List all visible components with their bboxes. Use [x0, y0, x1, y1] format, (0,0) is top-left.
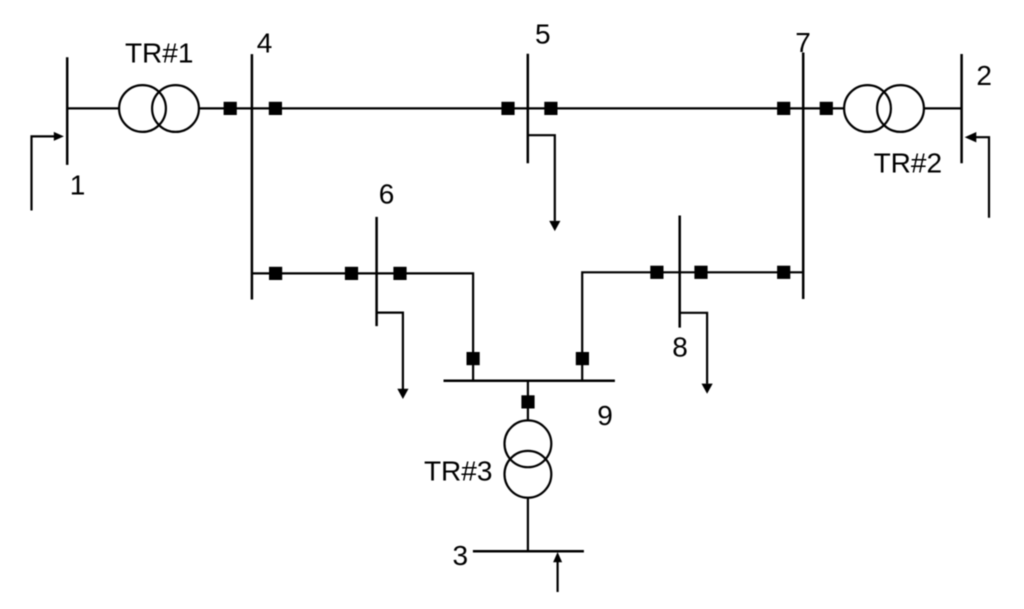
svg-text:4: 4 [257, 27, 273, 58]
bus 3 [473, 550, 584, 553]
svg-text:1: 1 [70, 170, 86, 201]
breaker square line 7-8 drop [576, 352, 589, 365]
wire line 5-7 [528, 107, 803, 109]
svg-text:TR#3: TR#3 [424, 455, 492, 486]
bus 9 [444, 379, 615, 382]
wire bus1 to TR#1 [66, 107, 120, 109]
svg-text:2: 2 [976, 60, 992, 91]
svg-text:8: 8 [672, 332, 688, 363]
generator G1 feed wire [32, 136, 55, 210]
svg-text:TR#2: TR#2 [874, 147, 942, 178]
generator G3 feed wire [556, 562, 558, 592]
breaker square TR#1-bus4 [224, 102, 237, 115]
arrowhead generator G3 [553, 552, 562, 562]
load wire at bus 6 [377, 313, 403, 389]
transformer TR#2 [844, 85, 891, 132]
breaker square bus4 line 4-5 [269, 102, 282, 115]
breaker square line 4-5 at bus5 [501, 102, 514, 115]
arrowhead load 8 [702, 384, 713, 394]
load wire at bus 5 [528, 135, 555, 221]
svg-text:9: 9 [597, 400, 613, 431]
wire TR#1 to bus 4 [199, 107, 252, 109]
transformer TR#3 [505, 420, 552, 467]
svg-text:TR#1: TR#1 [125, 37, 193, 68]
arrowhead load 6 [397, 389, 408, 399]
wire line 4-6 [252, 273, 473, 380]
svg-text:3: 3 [453, 540, 469, 571]
bus 1 [66, 57, 69, 165]
svg-text:5: 5 [535, 18, 551, 49]
breaker square line 4-6 mid [345, 267, 358, 280]
breaker square line 7-8 at bus8 left [650, 266, 663, 279]
bus 4 [251, 54, 254, 299]
wire line 7-8 [582, 272, 803, 380]
breaker square line 7-8 at bus7 [777, 266, 790, 279]
breaker square line 5-7 at bus7 [777, 102, 790, 115]
wire TR#2 to bus 2 [924, 107, 962, 109]
breaker square line 4-6 drop [467, 352, 480, 365]
bus 6 [375, 217, 378, 326]
load wire at bus 8 [680, 313, 707, 384]
bus 7 [802, 53, 805, 300]
generator G2 feed wire [976, 137, 989, 218]
wire TR#3 to bus 3 [527, 498, 529, 552]
bus 8 [678, 216, 681, 328]
bus 2 [960, 54, 963, 163]
wire bus 7 to TR#2 [803, 107, 844, 109]
bus 5 [527, 54, 530, 163]
svg-text:6: 6 [379, 178, 395, 209]
svg-text:7: 7 [795, 27, 811, 58]
arrowhead generator G1 [54, 132, 64, 141]
transformer TR#1 [119, 85, 166, 132]
arrowhead generator G2 [965, 132, 977, 142]
wire bus 9 to TR#3 [527, 381, 529, 421]
breaker square bus7-TR#2 [820, 102, 833, 115]
breaker square line 4-6 at bus4 [269, 267, 282, 280]
breaker square bus9-TR#3 [521, 395, 534, 408]
arrowhead load 5 [549, 221, 560, 231]
wire line 4-5 [252, 107, 528, 109]
breaker square line 5-7 at bus5 [544, 102, 557, 115]
breaker square line 4-6 at bus6 [393, 267, 406, 280]
breaker square line 7-8 at bus8 right [694, 266, 707, 279]
